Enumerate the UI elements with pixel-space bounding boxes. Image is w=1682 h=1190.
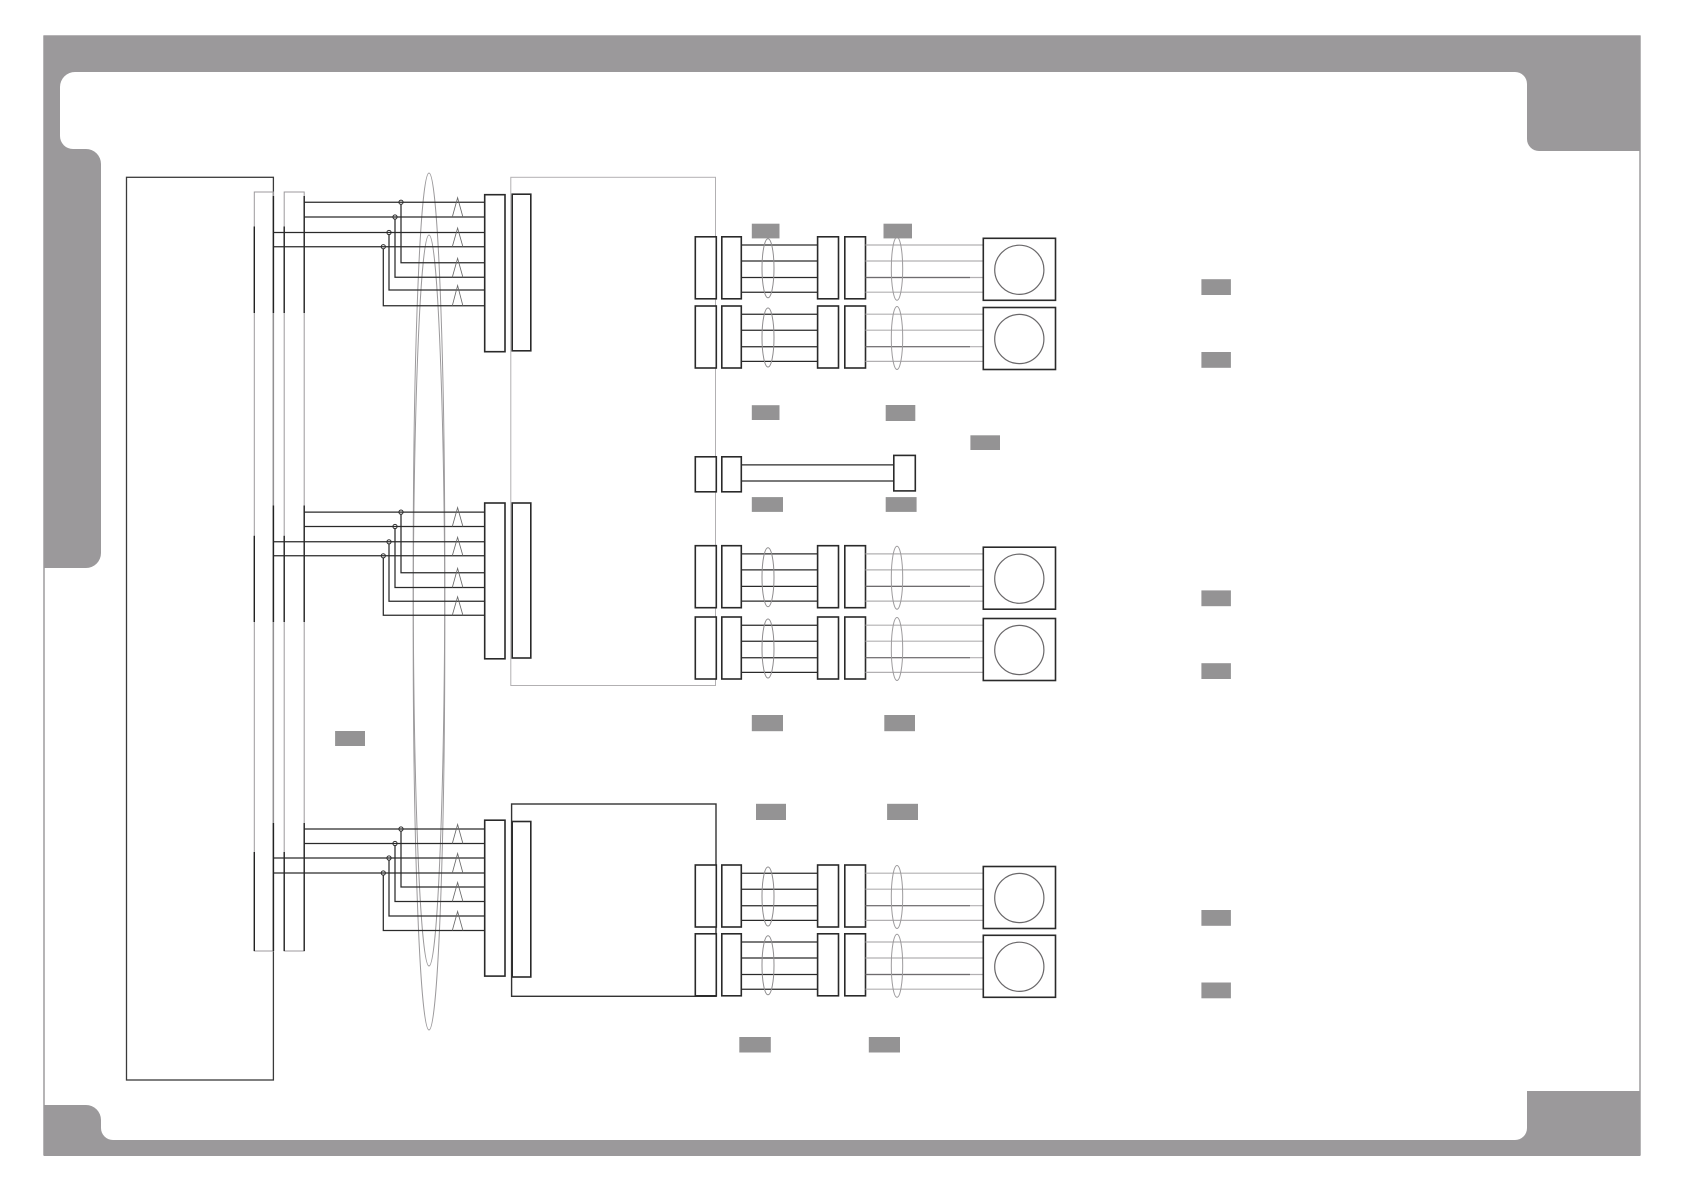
- label block: [1201, 983, 1231, 999]
- connector JC3R1c: [818, 865, 839, 927]
- bottom gray band with corner tabs: [44, 1091, 1640, 1156]
- junction node group1-2: [393, 215, 397, 219]
- label block: [752, 405, 780, 420]
- junction node group3-4: [381, 871, 385, 875]
- wire group1 line 2: [304, 216, 485, 218]
- junction node group1-1: [399, 200, 403, 204]
- harness wire light C3R1: [866, 888, 984, 890]
- wire group2 line 4: [273, 555, 484, 557]
- label block: [1201, 663, 1231, 679]
- strip pin segment: [303, 196, 305, 313]
- cable bundle ellipse C2R2: [762, 619, 774, 678]
- label block: [335, 731, 365, 746]
- junction node group1-4: [381, 245, 385, 249]
- strip pin segment: [303, 506, 305, 623]
- cable bundle ellipse C1R2: [762, 308, 774, 367]
- main board box: [127, 177, 274, 1080]
- harness wire light C3R1: [866, 905, 984, 907]
- harness wire dark segment C3R1: [866, 905, 971, 907]
- harness wire light C2R1: [866, 585, 984, 587]
- label block: [884, 715, 915, 731]
- connector CN2A: [485, 503, 505, 659]
- twisted pair mark group1: [452, 198, 463, 217]
- label block: [1201, 910, 1231, 926]
- harness wire light C1R2: [866, 346, 984, 348]
- branch wire group2-2: [395, 529, 485, 588]
- motor box MC2R1: [983, 547, 1055, 609]
- wire group2 line 2: [304, 526, 485, 528]
- connector JC1R2c: [818, 306, 839, 368]
- wire group1 line 3: [273, 232, 484, 234]
- branch wire group1-3: [389, 235, 485, 290]
- connector JC2R1d: [845, 546, 866, 608]
- label block: [886, 497, 917, 512]
- twisted pair mark group3: [452, 883, 463, 902]
- motor circle MC2R1: [995, 554, 1044, 603]
- harness wire light C3R2: [866, 941, 984, 943]
- connector JC2R1c: [818, 546, 839, 608]
- harness wire C3R1: [741, 905, 817, 907]
- cable bundle ellipse C2R1r: [891, 546, 902, 609]
- branch wire group1-1: [401, 204, 485, 262]
- wire group1 line 4: [273, 246, 484, 248]
- connector JC3R1d: [845, 865, 866, 927]
- harness wire C3R2: [741, 974, 817, 976]
- harness wire light C2R2: [866, 657, 984, 659]
- harness wire light C1R1: [866, 277, 984, 279]
- junction node group2-3: [387, 540, 391, 544]
- connector JC2R2b: [722, 617, 742, 679]
- cable bundle ellipse C1R1: [762, 239, 774, 298]
- harness wire light C1R1: [866, 260, 984, 262]
- cable loop ellipse 2: [413, 235, 445, 1030]
- cable bundle ellipse C2R2r: [891, 618, 902, 681]
- branch wire group2-1: [401, 514, 485, 573]
- harness wire light C2R1: [866, 600, 984, 602]
- harness wire C2R2: [741, 657, 817, 659]
- motor circle MC3R1: [995, 873, 1044, 922]
- harness wire C1R1: [741, 260, 817, 262]
- harness wire C2R1: [741, 553, 817, 555]
- connector CN3A: [485, 820, 505, 976]
- label block: [756, 804, 786, 820]
- harness wire light C3R1: [866, 919, 984, 921]
- twisted pair mark group1: [452, 228, 463, 247]
- connector JC2R1a: [695, 546, 716, 608]
- connector JC2R2d: [845, 617, 866, 679]
- connector JC1R2b: [722, 306, 742, 368]
- connector JC1R2a: [695, 306, 716, 368]
- harness wire C1R2: [741, 346, 817, 348]
- top gray band with corner tabs: [44, 36, 1640, 568]
- cable bundle ellipse C2R1: [762, 548, 774, 607]
- strip pin segment: [272, 506, 274, 623]
- cable wire S2: [741, 480, 894, 482]
- branch wire group2-4: [383, 558, 484, 615]
- junction node group2-1: [399, 510, 403, 514]
- wire group3 line 2: [304, 843, 485, 845]
- motor circle MC3R2: [995, 942, 1044, 991]
- wire group1 line 1: [304, 201, 485, 203]
- label block: [886, 405, 916, 421]
- label block: [887, 804, 918, 820]
- cable loop ellipse 1: [413, 173, 445, 966]
- harness wire dark segment C3R2: [866, 974, 971, 976]
- label block: [884, 224, 913, 239]
- strip pin segment: [272, 196, 274, 313]
- label block: [869, 1037, 900, 1053]
- connector JC3R1b: [722, 865, 742, 927]
- strip pin segment: [283, 852, 285, 951]
- strip pin segment: [253, 227, 255, 314]
- connector CN2B: [512, 503, 531, 658]
- label block: [739, 1037, 771, 1053]
- twisted pair mark group2: [452, 597, 463, 616]
- connector JC1R1d: [845, 237, 866, 299]
- harness wire light C2R1: [866, 569, 984, 571]
- harness wire C1R1: [741, 277, 817, 279]
- harness wire C2R2: [741, 624, 817, 626]
- branch wire group3-1: [401, 831, 485, 887]
- harness wire C3R2: [741, 957, 817, 959]
- junction node group3-1: [399, 827, 403, 831]
- motor box MC3R1: [983, 867, 1055, 929]
- strip pin segment: [303, 823, 305, 951]
- junction node group3-3: [387, 856, 391, 860]
- harness wire light C1R2: [866, 313, 984, 315]
- middle board box: [511, 177, 716, 685]
- cable wire S1: [741, 464, 894, 466]
- twisted pair mark group2: [452, 537, 463, 556]
- connector JC3R2c: [818, 934, 839, 996]
- harness wire C2R1: [741, 585, 817, 587]
- branch wire group3-3: [389, 860, 485, 916]
- connector CN1A: [485, 195, 505, 352]
- wire group2 line 3: [273, 541, 484, 543]
- cable bundle ellipse C1R1r: [891, 237, 902, 300]
- motor box MC3R2: [983, 935, 1055, 997]
- twisted pair mark group1: [452, 286, 463, 306]
- connector JC1R1c: [818, 237, 839, 299]
- motor circle MC2R2: [995, 625, 1044, 674]
- wire group3 line 4: [273, 872, 484, 874]
- motor circle MC1R2: [995, 314, 1044, 363]
- harness wire dark segment C2R1: [866, 585, 971, 587]
- bottom board box: [512, 804, 716, 996]
- harness wire C3R1: [741, 888, 817, 890]
- connector JC3R2b: [722, 934, 742, 996]
- harness wire C1R2: [741, 313, 817, 315]
- cable bundle ellipse C3R2r: [891, 934, 902, 997]
- harness wire C2R1: [741, 569, 817, 571]
- junction node group1-3: [387, 230, 391, 234]
- cable bundle ellipse C1R2r: [891, 307, 902, 370]
- connector strip P2: [284, 192, 304, 951]
- strip pin segment: [283, 227, 285, 314]
- harness wire C1R1: [741, 244, 817, 246]
- twisted pair mark group2: [452, 508, 463, 527]
- harness wire C1R1: [741, 291, 817, 293]
- branch wire group3-4: [383, 875, 484, 930]
- harness wire dark segment C2R2: [866, 657, 971, 659]
- harness wire light C2R1: [866, 553, 984, 555]
- motor circle MC1R1: [995, 245, 1044, 294]
- connector JC3R1a: [695, 865, 716, 927]
- harness wire light C2R2: [866, 624, 984, 626]
- label block: [752, 224, 780, 239]
- harness wire light C3R2: [866, 974, 984, 976]
- connector JSa: [695, 457, 716, 492]
- harness wire light C3R1: [866, 872, 984, 874]
- harness wire light C1R2: [866, 329, 984, 331]
- harness wire C1R2: [741, 329, 817, 331]
- branch wire group2-3: [389, 544, 485, 601]
- harness wire light C2R2: [866, 671, 984, 673]
- junction node group2-2: [393, 524, 397, 528]
- motor box MC2R2: [983, 619, 1055, 681]
- connector JC2R1b: [722, 546, 742, 608]
- cable bundle ellipse C3R1r: [891, 866, 902, 929]
- twisted pair mark group2: [452, 568, 463, 587]
- harness wire C2R2: [741, 671, 817, 673]
- motor box MC1R1: [983, 238, 1055, 300]
- harness wire light C1R1: [866, 244, 984, 246]
- strip pin segment: [272, 823, 274, 951]
- harness wire dark segment C1R2: [866, 346, 971, 348]
- wire group3 line 1: [304, 828, 485, 830]
- connector JSb: [722, 457, 742, 492]
- connector JC2R2c: [818, 617, 839, 679]
- branch wire group1-4: [383, 249, 484, 306]
- connector JSc: [894, 455, 916, 491]
- strip pin segment: [253, 536, 255, 622]
- connector CN1B: [512, 194, 531, 351]
- label block: [752, 497, 783, 512]
- wire group3 line 3: [273, 857, 484, 859]
- junction node group2-4: [381, 554, 385, 558]
- harness wire C3R1: [741, 919, 817, 921]
- harness wire dark segment C1R1: [866, 277, 971, 279]
- harness wire C3R2: [741, 941, 817, 943]
- harness wire C3R2: [741, 988, 817, 990]
- branch wire group1-2: [395, 219, 485, 277]
- harness wire light C2R2: [866, 640, 984, 642]
- connector JC3R2a: [695, 934, 716, 996]
- twisted pair mark group3: [452, 854, 463, 874]
- connector JC2R2a: [695, 617, 716, 679]
- harness wire light C1R2: [866, 360, 984, 362]
- connector JC1R1b: [722, 237, 742, 299]
- harness wire C2R1: [741, 600, 817, 602]
- junction node group3-2: [393, 841, 397, 845]
- strip pin segment: [283, 536, 285, 622]
- connector CN3B: [512, 822, 531, 978]
- harness wire C3R1: [741, 872, 817, 874]
- label block: [752, 715, 783, 731]
- label block: [970, 435, 1000, 450]
- twisted pair mark group3: [452, 912, 463, 931]
- label block: [1201, 590, 1231, 606]
- connector JC1R2d: [845, 306, 866, 368]
- twisted pair mark group1: [452, 258, 463, 277]
- harness wire C2R2: [741, 640, 817, 642]
- cable bundle ellipse C3R1: [762, 867, 774, 926]
- label block: [1201, 352, 1231, 368]
- strip pin segment: [253, 852, 255, 951]
- harness wire light C3R2: [866, 988, 984, 990]
- harness wire C1R2: [741, 360, 817, 362]
- connector JC1R1a: [695, 237, 716, 299]
- connector JC3R2d: [845, 934, 866, 996]
- label block: [1201, 279, 1231, 295]
- wire group2 line 1: [304, 511, 485, 513]
- twisted pair mark group3: [452, 825, 463, 844]
- motor box MC1R2: [983, 308, 1055, 370]
- connector strip P1: [254, 192, 273, 951]
- cable bundle ellipse C3R2: [762, 936, 774, 995]
- harness wire light C3R2: [866, 957, 984, 959]
- branch wire group3-2: [395, 846, 485, 902]
- harness wire light C1R1: [866, 291, 984, 293]
